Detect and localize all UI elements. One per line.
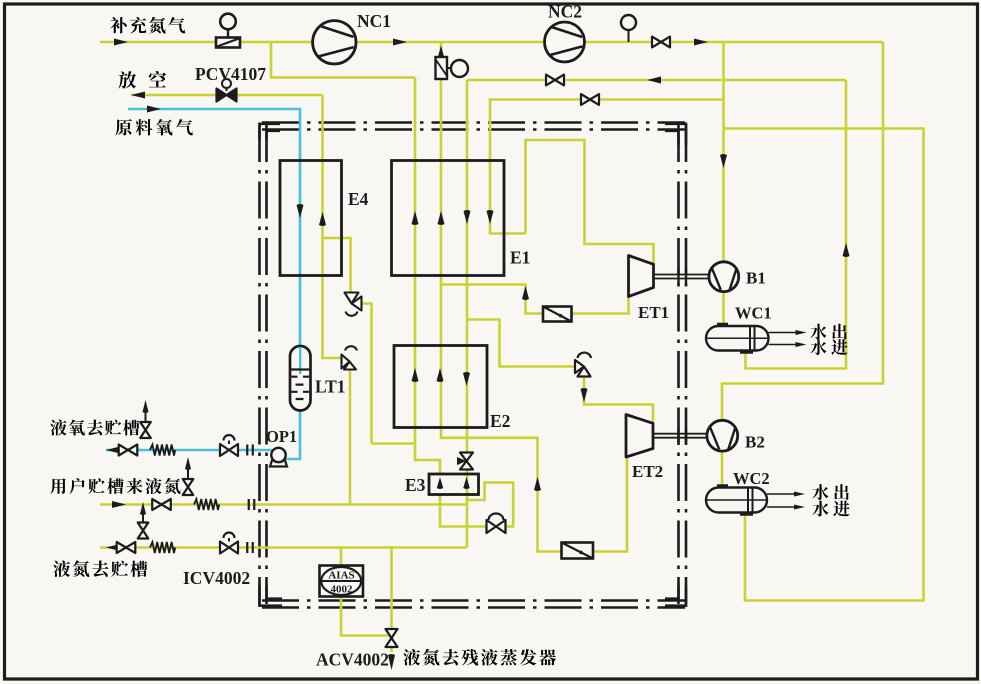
label shuijin WC2 <box>812 501 849 517</box>
label NC1 <box>357 11 391 31</box>
arrow E1 v1 up <box>412 211 419 225</box>
seal stream2 <box>249 499 255 510</box>
label B1 <box>746 269 766 288</box>
label NC2 <box>548 2 582 22</box>
valve y80 x555 <box>546 75 564 86</box>
cold box insulation boundary <box>260 123 687 608</box>
pump OP1 <box>270 448 287 467</box>
valve y99 x590 <box>581 94 599 105</box>
svg-text:E3: E3 <box>405 475 426 495</box>
wire O2 feed <box>128 109 300 346</box>
label buchong danqi <box>110 17 185 34</box>
water lines WC1 <box>769 330 807 347</box>
wire WC1 return y80 <box>467 79 846 82</box>
label B2 <box>745 433 765 452</box>
silencer/heater ET2 outlet <box>562 543 594 559</box>
arrow E1 v2 up <box>438 211 445 225</box>
arrow vent left <box>131 92 145 99</box>
relief valve stream3 <box>138 514 149 539</box>
svg-text:WC1: WC1 <box>735 304 772 323</box>
arrow O2 feed <box>147 106 161 113</box>
arrow x846 up <box>843 243 850 257</box>
valve E2-E3 x466 <box>457 453 473 470</box>
angle valve E4 bypass upper <box>345 293 362 316</box>
instrument AIAS4002 <box>320 566 364 597</box>
label WC2 <box>733 469 770 488</box>
wire B1-WC1 loop y128 <box>724 129 924 601</box>
wire valve1 out <box>361 304 372 444</box>
svg-text:E2: E2 <box>490 411 510 431</box>
wire B2 to WC2 <box>721 452 724 488</box>
arrow E4 cyan down <box>297 204 304 218</box>
wire vent line PCV4107 <box>131 94 323 97</box>
wire ACV drain x391 <box>390 548 393 653</box>
arrow stream3 out <box>106 544 120 551</box>
arrow stream2 in <box>112 501 126 508</box>
instrument gauge NC2 <box>621 15 636 42</box>
wire HP line y99 to E1 <box>490 100 724 234</box>
compressor NC2 <box>545 22 585 62</box>
label yeyang qu zhucao <box>50 419 139 435</box>
label shuichu WC1 <box>810 324 846 340</box>
arrow x525 up <box>522 286 529 300</box>
wire stream3 LIN to tank <box>100 546 467 549</box>
svg-text:B1: B1 <box>746 269 766 288</box>
arrow x441 up <box>438 46 445 60</box>
svg-text:4002: 4002 <box>331 584 354 596</box>
wire E1-E2 pass line x415 <box>415 78 440 475</box>
arrow ET2 valve down <box>581 388 588 402</box>
arrow y80 left <box>647 77 661 84</box>
compressor NC1 <box>313 21 356 64</box>
arrow E2 v3 down <box>463 372 470 386</box>
svg-text:ACV4002: ACV4002 <box>316 650 389 670</box>
svg-text:PCV4107: PCV4107 <box>195 64 266 84</box>
svg-text:E1: E1 <box>510 248 530 268</box>
wire ET1 outlet <box>441 285 629 314</box>
vessel LT1 <box>290 346 311 411</box>
wire E1-E2 return x441 <box>440 42 443 428</box>
control valve ICV4002 <box>220 533 238 554</box>
label E4 <box>348 189 369 209</box>
seal coil stream1 <box>150 445 175 456</box>
wire x846 riser <box>746 80 847 369</box>
arrow E1 v4 down <box>487 210 494 224</box>
wire NC1 suction branch <box>271 42 415 78</box>
valve PCV4107 <box>217 79 237 102</box>
arrow relief2 up <box>185 457 191 470</box>
label yedan qu zhucao <box>53 560 147 577</box>
arrow x537 up <box>534 477 541 491</box>
angle valve E4 bypass lower <box>342 346 358 369</box>
valve stream3 <box>117 542 136 553</box>
label fangkong <box>118 71 166 88</box>
wire E4 tee to valve1 <box>323 238 351 293</box>
wire ET1 inlet <box>526 140 654 264</box>
wire main N2 line y42 <box>100 41 883 44</box>
seal coil stream2 <box>194 499 219 510</box>
arrow E2 v2 up <box>437 368 444 382</box>
shaft ET1-B1 <box>654 275 710 279</box>
label OP1 <box>266 427 297 446</box>
wire AIAS branch <box>340 548 343 566</box>
turbine ET2 <box>626 415 653 458</box>
angle valve ET2 inlet <box>575 353 591 377</box>
svg-text:E4: E4 <box>348 189 369 209</box>
arrow x723 down <box>720 154 727 168</box>
label ET2 <box>632 462 663 481</box>
heat exchanger E3 <box>429 474 479 495</box>
wire E4 riser x322 <box>323 95 343 358</box>
arrow E1 v3 down <box>464 210 471 224</box>
svg-text:B2: B2 <box>745 433 765 452</box>
booster B2 <box>707 420 738 451</box>
label ACV4002 <box>316 650 389 670</box>
arrow stream1 out <box>106 447 120 454</box>
water cooler WC1 <box>706 325 769 353</box>
label yonghu zhucao lai yedan <box>50 478 180 494</box>
wire B1 suction x723 <box>722 42 725 262</box>
valve ACV4002 <box>386 629 398 647</box>
shaft flange ET2 <box>679 427 687 445</box>
valve stream1 <box>119 445 138 456</box>
JT valve E3 loop <box>487 514 506 534</box>
arrow E3 v1 up <box>437 477 444 489</box>
svg-text:OP1: OP1 <box>266 427 297 446</box>
shaft ET2-B2 <box>653 434 707 438</box>
valve main line x661 <box>652 37 670 48</box>
turbine ET1 <box>629 256 654 297</box>
heat exchanger E2 <box>394 346 487 428</box>
svg-text:NC2: NC2 <box>548 2 582 22</box>
label yuanliao yangqi <box>115 119 192 136</box>
arrow relief1 up <box>143 400 149 413</box>
relief valve stream1 <box>140 412 151 438</box>
wire ET2 valve outlet <box>584 375 653 423</box>
wire valve1 to x415 <box>372 442 416 445</box>
label ICV4002 <box>183 568 250 588</box>
heat exchanger E4 <box>280 161 342 276</box>
wire NC2 discharge right <box>722 42 883 421</box>
wire B1 to WC1 <box>722 292 725 327</box>
arrow main line 3 <box>694 39 708 46</box>
svg-text:NC1: NC1 <box>357 11 391 31</box>
arrow ACV drain down <box>388 654 395 670</box>
water cooler WC2 <box>706 486 767 514</box>
seal stream3 <box>247 542 253 553</box>
svg-text:ET2: ET2 <box>632 462 663 481</box>
control valve stream1 <box>220 435 238 456</box>
wire valve2 out down <box>349 369 352 505</box>
label shuichu WC2 <box>812 484 848 500</box>
svg-text:ET1: ET1 <box>638 303 669 322</box>
shaft flange ET1 <box>679 268 687 286</box>
label E1 <box>510 248 530 268</box>
valve stream2 <box>152 499 171 510</box>
label WC1 <box>735 304 772 323</box>
wire LT1 to OP1 <box>284 412 300 460</box>
label PCV4107 <box>195 64 266 84</box>
arrow E4 yellow up <box>319 212 326 226</box>
seal stream1 <box>247 445 253 456</box>
label yedan qu canye zhengfaqi <box>403 649 556 666</box>
arrow E2 v1 up <box>412 368 419 382</box>
wire E2 tee to ET2 valve <box>467 320 578 367</box>
wire stream1 LOX to tank <box>106 449 272 452</box>
svg-text:AIAS: AIAS <box>328 570 354 582</box>
svg-text:LT1: LT1 <box>315 377 346 397</box>
wire AIAS to ACV <box>341 597 392 636</box>
svg-text:WC2: WC2 <box>733 469 770 488</box>
wire E2 return to ET2 hx <box>441 428 627 552</box>
wire E3 JT loop <box>440 483 513 527</box>
relief valve stream2 <box>183 469 194 495</box>
wire E1-E2-E3 feed x467 <box>466 80 469 548</box>
arrow main line 1 <box>114 39 128 46</box>
label ET1 <box>638 303 669 322</box>
silencer/heater ET1 outlet <box>543 307 572 322</box>
control valve makeup N2 <box>216 14 240 48</box>
instrument control valve x441 <box>436 57 469 79</box>
arrow main line 2 <box>393 39 407 46</box>
arrow E3 v2 up <box>463 477 470 489</box>
wire stream2 LIN from user tank <box>100 503 467 506</box>
heat exchanger E1 <box>392 161 505 276</box>
label LT1 <box>315 377 346 397</box>
label E2 <box>490 411 510 431</box>
arrow relief3 up <box>140 502 146 515</box>
svg-text:ICV4002: ICV4002 <box>183 568 250 588</box>
seal coil stream3 <box>150 542 175 553</box>
label E3 <box>405 475 426 495</box>
label shuijin WC1 <box>810 339 847 355</box>
booster B1 <box>709 262 739 292</box>
water lines WC2 <box>767 492 805 510</box>
